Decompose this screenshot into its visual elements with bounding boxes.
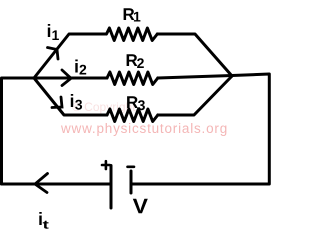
wire middle branch right into node [158,76,232,79]
wire top branch right (stub + diagonal to node) [157,34,232,76]
wire middle branch left [34,77,107,80]
label i2 [75,60,86,75]
label R3 [127,96,145,110]
battery V short plate (-) [130,171,133,193]
wire bottom left segment [2,183,111,186]
current arrow i2 [62,70,71,86]
current arrow i1 [48,48,59,60]
resistor R2 [107,72,158,85]
wire bottom branch left (diagonal + stub) [34,78,107,115]
svg-text:www.physicstutorials.org: www.physicstutorials.org [60,121,228,136]
label R1 [124,8,141,21]
current arrow it [35,174,48,193]
battery plus sign [102,164,110,167]
wire bottom branch right (stub + diagonal to node) [158,76,232,115]
label V [133,199,148,213]
wire left feed (vertical + horizontal into node) [2,78,35,184]
battery minus sign [128,166,135,169]
label i1 [48,24,59,40]
resistor R3 [107,109,158,122]
wire top branch left (diagonal + stub) [34,34,106,78]
wire right side down [132,74,270,184]
label i3 [71,94,82,110]
current arrow i3 [52,97,62,108]
battery V long plate (+) [110,166,113,209]
resistor R1 [107,28,158,41]
label R2 [127,54,144,68]
label it [39,212,48,229]
